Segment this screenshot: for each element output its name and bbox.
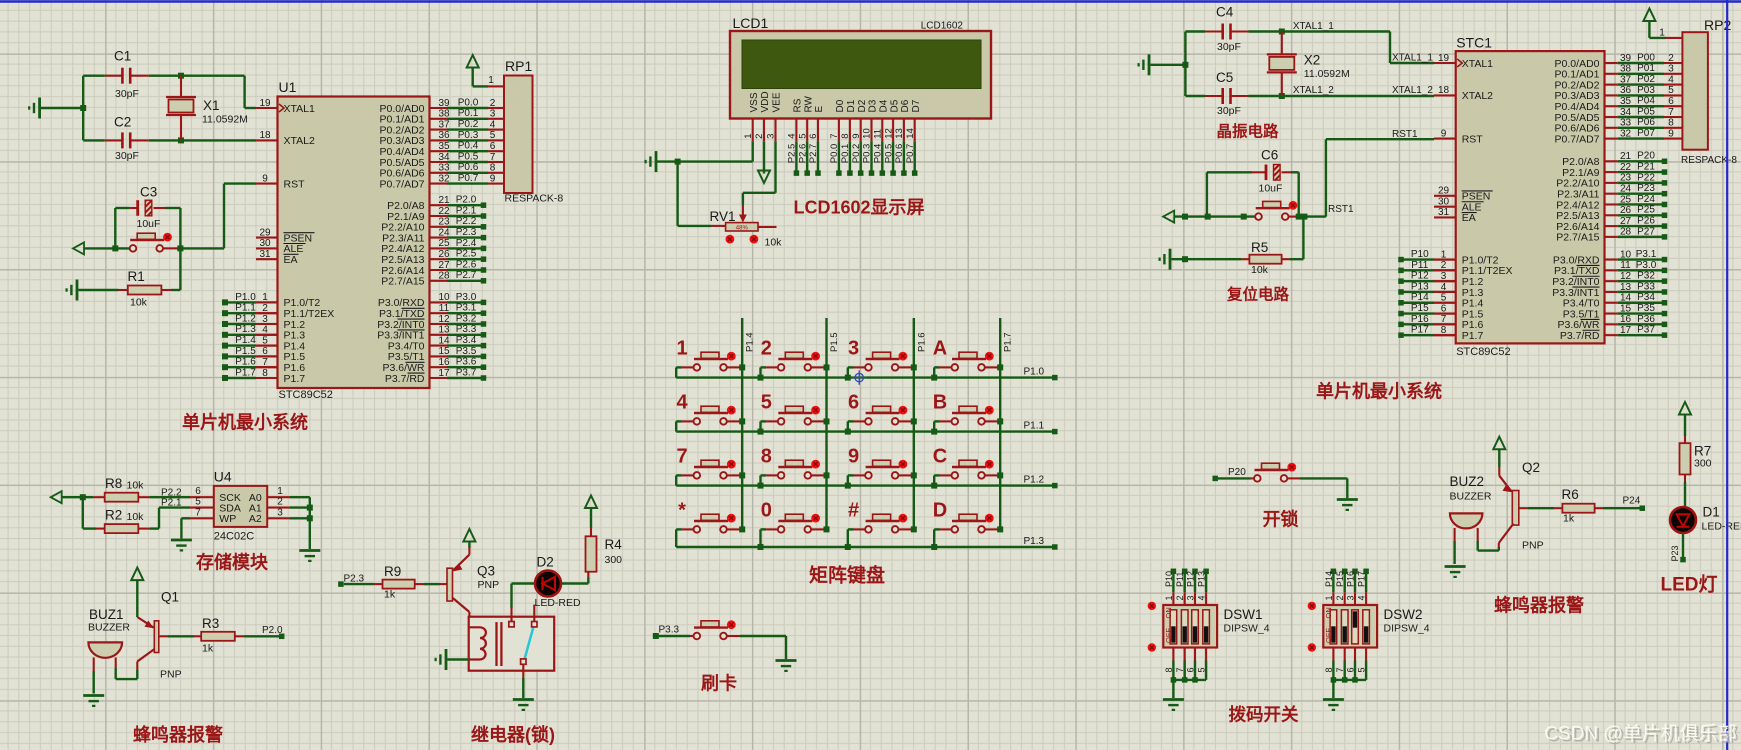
svg-text:继电器(锁): 继电器(锁) <box>471 724 555 745</box>
svg-text:P3.7/RD: P3.7/RD <box>385 373 425 385</box>
svg-text:VDD: VDD <box>760 91 771 112</box>
svg-text:VSS: VSS <box>749 92 760 112</box>
svg-text:P1.7: P1.7 <box>235 367 256 378</box>
svg-text:4: 4 <box>1197 595 1207 600</box>
svg-text:R9: R9 <box>384 564 401 579</box>
svg-text:C2: C2 <box>114 115 131 130</box>
svg-text:P36: P36 <box>1637 314 1655 325</box>
svg-text:D4: D4 <box>879 99 890 112</box>
svg-text:3: 3 <box>1668 64 1674 75</box>
svg-text:4: 4 <box>1668 74 1674 85</box>
svg-text:9: 9 <box>851 134 862 139</box>
svg-text:RST: RST <box>1462 133 1484 145</box>
svg-text:P14: P14 <box>1411 292 1429 303</box>
svg-text:P3.5: P3.5 <box>456 346 477 357</box>
svg-text:P2.7/A15: P2.7/A15 <box>381 276 424 288</box>
svg-text:P3.2: P3.2 <box>456 313 477 324</box>
svg-text:RV1: RV1 <box>710 209 736 224</box>
svg-text:24C02C: 24C02C <box>214 531 254 543</box>
svg-text:P1.4: P1.4 <box>745 332 756 352</box>
svg-text:R4: R4 <box>605 537 623 552</box>
svg-text:P05: P05 <box>1637 106 1655 117</box>
svg-text:2: 2 <box>1175 595 1185 600</box>
svg-text:PNP: PNP <box>160 669 182 681</box>
svg-text:C4: C4 <box>1216 5 1234 20</box>
svg-text:P0.7/AD7: P0.7/AD7 <box>380 178 425 190</box>
svg-text:3: 3 <box>1345 595 1355 600</box>
svg-text:11: 11 <box>873 129 884 139</box>
svg-text:P1.2: P1.2 <box>235 313 256 324</box>
svg-text:30pF: 30pF <box>115 88 139 100</box>
svg-text:P00: P00 <box>1637 52 1655 63</box>
svg-text:300: 300 <box>605 554 623 566</box>
svg-text:1: 1 <box>676 337 687 359</box>
svg-text:P1.7: P1.7 <box>284 373 306 385</box>
svg-text:7: 7 <box>829 134 840 139</box>
svg-text:P0.7: P0.7 <box>458 173 479 184</box>
svg-text:B: B <box>933 391 947 413</box>
svg-text:P3.7: P3.7 <box>456 367 477 378</box>
svg-text:P2.6: P2.6 <box>797 144 808 164</box>
svg-text:P1.0: P1.0 <box>235 292 256 303</box>
svg-text:RP1: RP1 <box>505 58 532 74</box>
svg-text:P13: P13 <box>1411 281 1429 292</box>
svg-text:单片机最小系统: 单片机最小系统 <box>1316 381 1442 402</box>
svg-text:P07: P07 <box>1637 128 1655 139</box>
svg-text:P0.2: P0.2 <box>851 144 862 164</box>
svg-text:30pF: 30pF <box>1217 105 1241 117</box>
svg-text:19: 19 <box>1438 53 1450 64</box>
svg-text:D0: D0 <box>835 99 846 112</box>
svg-text:P2.6: P2.6 <box>456 259 477 270</box>
svg-text:11.0592M: 11.0592M <box>202 114 248 126</box>
svg-text:P01: P01 <box>1637 63 1655 74</box>
svg-text:R7: R7 <box>1694 444 1711 459</box>
svg-text:48%: 48% <box>736 226 749 232</box>
svg-text:A: A <box>933 337 947 359</box>
svg-text:VEE: VEE <box>772 92 783 112</box>
svg-text:P12: P12 <box>1411 271 1429 282</box>
svg-text:P0.0: P0.0 <box>829 144 840 164</box>
svg-text:6: 6 <box>808 134 819 139</box>
svg-text:BUZZER: BUZZER <box>88 622 130 634</box>
svg-text:P27: P27 <box>1637 226 1655 237</box>
svg-text:1: 1 <box>277 486 283 497</box>
svg-text:P24: P24 <box>1623 496 1641 507</box>
svg-text:5: 5 <box>797 134 808 139</box>
svg-text:BUZ2: BUZ2 <box>1450 474 1485 489</box>
svg-text:P3.0: P3.0 <box>1636 260 1657 271</box>
svg-text:P32: P32 <box>1637 271 1655 282</box>
svg-text:P2.1: P2.1 <box>456 205 477 216</box>
svg-text:P11: P11 <box>1411 260 1428 271</box>
svg-text:P2.4: P2.4 <box>456 238 477 249</box>
svg-text:P0.3: P0.3 <box>458 130 479 141</box>
svg-text:C1: C1 <box>114 49 131 64</box>
svg-text:BUZ1: BUZ1 <box>89 607 124 622</box>
svg-text:13: 13 <box>894 128 905 139</box>
svg-text:P3.1: P3.1 <box>456 303 477 314</box>
svg-text:10k: 10k <box>130 297 148 309</box>
svg-text:RW: RW <box>803 95 814 112</box>
svg-text:P1.6: P1.6 <box>235 357 256 368</box>
svg-text:10uF: 10uF <box>137 218 161 230</box>
svg-text:Q1: Q1 <box>161 590 179 605</box>
svg-text:RS: RS <box>793 98 804 112</box>
svg-text:4: 4 <box>787 134 798 139</box>
svg-text:5: 5 <box>761 391 772 413</box>
svg-text:P1.4: P1.4 <box>235 335 256 346</box>
svg-text:E: E <box>814 106 825 113</box>
svg-text:D1: D1 <box>846 99 857 112</box>
svg-text:Q2: Q2 <box>1522 460 1540 475</box>
svg-text:LED-RED: LED-RED <box>1702 521 1741 533</box>
svg-text:DSW2: DSW2 <box>1384 607 1423 622</box>
svg-text:3: 3 <box>490 109 496 120</box>
svg-text:8: 8 <box>490 163 496 174</box>
svg-text:9: 9 <box>848 445 859 467</box>
svg-text:5: 5 <box>490 130 496 141</box>
svg-text:CSDN @单片机俱乐部: CSDN @单片机俱乐部 <box>1544 723 1736 745</box>
svg-text:P1.2: P1.2 <box>1024 475 1045 486</box>
svg-text:OFF: OFF <box>1324 628 1333 643</box>
svg-text:XTAL1: XTAL1 <box>284 103 315 115</box>
svg-text:P2.7: P2.7 <box>808 144 819 164</box>
svg-text:XTAL2: XTAL2 <box>284 135 315 147</box>
svg-text:P22: P22 <box>1637 172 1655 183</box>
svg-text:10k: 10k <box>765 237 783 249</box>
svg-text:RST1: RST1 <box>1392 129 1418 140</box>
svg-text:P20: P20 <box>1228 467 1246 478</box>
svg-text:RST1: RST1 <box>1328 204 1354 215</box>
svg-text:DSW1: DSW1 <box>1224 607 1263 622</box>
svg-text:Q3: Q3 <box>477 564 495 579</box>
svg-text:P2.5: P2.5 <box>456 249 477 260</box>
svg-text:14: 14 <box>905 128 916 139</box>
svg-text:P0.7: P0.7 <box>905 144 916 164</box>
svg-text:300: 300 <box>1694 458 1712 470</box>
svg-text:RST: RST <box>284 178 306 190</box>
svg-text:复位电路: 复位电路 <box>1226 285 1290 304</box>
svg-text:D3: D3 <box>868 99 879 112</box>
svg-text:P1.0: P1.0 <box>1024 367 1045 378</box>
svg-text:开锁: 开锁 <box>1263 509 1299 530</box>
svg-text:R2: R2 <box>105 508 122 523</box>
svg-text:单片机最小系统: 单片机最小系统 <box>182 412 308 433</box>
svg-text:OFF: OFF <box>1164 628 1173 643</box>
svg-text:蜂鸣器报警: 蜂鸣器报警 <box>1494 595 1584 616</box>
svg-text:P2.3: P2.3 <box>456 227 477 238</box>
svg-text:9: 9 <box>1441 128 1447 139</box>
svg-text:C: C <box>933 445 947 467</box>
svg-text:30pF: 30pF <box>1217 41 1241 53</box>
svg-text:P0.5: P0.5 <box>883 144 894 164</box>
svg-text:蜂鸣器报警: 蜂鸣器报警 <box>133 724 223 745</box>
svg-text:XTAL1_2: XTAL1_2 <box>1392 85 1433 96</box>
svg-text:STC89C52: STC89C52 <box>1456 346 1510 358</box>
svg-text:4: 4 <box>1357 595 1367 600</box>
svg-text:P2.2: P2.2 <box>456 216 477 227</box>
svg-text:6: 6 <box>195 486 201 497</box>
svg-text:30: 30 <box>1438 196 1450 207</box>
svg-text:P2.7/A15: P2.7/A15 <box>1556 232 1599 244</box>
svg-text:10k: 10k <box>127 511 145 523</box>
svg-text:6: 6 <box>1668 96 1674 107</box>
svg-text:P23: P23 <box>1637 183 1655 194</box>
svg-text:P1.3: P1.3 <box>1024 536 1045 547</box>
svg-text:P10: P10 <box>1164 571 1174 587</box>
svg-text:D2: D2 <box>537 555 554 570</box>
svg-text:X1: X1 <box>203 98 220 113</box>
svg-text:9: 9 <box>1668 128 1674 139</box>
svg-text:STC1: STC1 <box>1456 35 1492 51</box>
svg-text:P34: P34 <box>1637 292 1655 303</box>
svg-text:LCD1: LCD1 <box>733 15 769 31</box>
svg-text:U4: U4 <box>214 469 232 485</box>
svg-text:ON: ON <box>1324 607 1333 618</box>
svg-text:18: 18 <box>1438 85 1450 96</box>
svg-text:6: 6 <box>490 141 496 152</box>
svg-text:P3.3: P3.3 <box>456 324 477 335</box>
svg-text:LED灯: LED灯 <box>1660 574 1717 596</box>
svg-text:1k: 1k <box>384 589 396 601</box>
svg-text:D7: D7 <box>911 99 922 112</box>
svg-text:P24: P24 <box>1637 194 1655 205</box>
svg-text:10k: 10k <box>127 480 145 492</box>
svg-text:P0.6: P0.6 <box>894 144 905 164</box>
svg-text:RESPACK-8: RESPACK-8 <box>1681 155 1737 166</box>
svg-text:P26: P26 <box>1637 215 1655 226</box>
svg-text:P2.3: P2.3 <box>344 574 365 585</box>
svg-text:P16: P16 <box>1345 571 1355 587</box>
svg-text:晶振电路: 晶振电路 <box>1216 122 1279 141</box>
svg-text:ON: ON <box>1164 607 1173 618</box>
svg-text:31: 31 <box>259 249 271 260</box>
svg-text:A2: A2 <box>249 513 262 525</box>
svg-text:STC89C52: STC89C52 <box>279 389 333 401</box>
svg-text:2: 2 <box>1668 53 1674 64</box>
svg-text:4: 4 <box>676 391 688 413</box>
svg-text:C3: C3 <box>140 185 157 200</box>
svg-text:XTAL1_1: XTAL1_1 <box>1392 53 1433 64</box>
svg-text:R1: R1 <box>128 269 145 284</box>
svg-text:2: 2 <box>490 98 496 109</box>
svg-text:刷卡: 刷卡 <box>701 673 737 694</box>
svg-text:2: 2 <box>761 337 772 359</box>
svg-text:PNP: PNP <box>478 579 500 591</box>
svg-text:DIPSW_4: DIPSW_4 <box>1384 623 1430 635</box>
svg-text:9: 9 <box>490 173 496 184</box>
svg-text:D6: D6 <box>900 99 911 112</box>
svg-text:1: 1 <box>488 75 494 86</box>
svg-text:U1: U1 <box>279 79 297 95</box>
svg-text:1k: 1k <box>1563 513 1575 525</box>
svg-text:P1.5: P1.5 <box>235 346 256 357</box>
svg-text:7: 7 <box>676 445 687 467</box>
svg-text:存储模块: 存储模块 <box>196 552 269 573</box>
svg-text:P25: P25 <box>1637 205 1655 216</box>
svg-text:P1.7: P1.7 <box>1003 332 1014 352</box>
svg-text:P20: P20 <box>1637 151 1655 162</box>
svg-text:7: 7 <box>195 507 201 518</box>
svg-text:P0.2: P0.2 <box>458 119 479 130</box>
svg-text:P2.0: P2.0 <box>262 625 283 636</box>
svg-text:3: 3 <box>848 337 859 359</box>
svg-text:3: 3 <box>277 507 283 518</box>
svg-text:7: 7 <box>1668 107 1674 118</box>
svg-text:P3.7/RD: P3.7/RD <box>1560 330 1600 342</box>
svg-text:8: 8 <box>1668 118 1674 129</box>
svg-text:31: 31 <box>1438 207 1450 218</box>
svg-text:11.0592M: 11.0592M <box>1304 68 1350 80</box>
svg-text:P12: P12 <box>1185 571 1195 587</box>
svg-text:P0.1: P0.1 <box>458 108 479 119</box>
svg-text:P33: P33 <box>1637 281 1655 292</box>
svg-text:P2.0: P2.0 <box>456 195 477 206</box>
svg-text:P02: P02 <box>1637 74 1655 85</box>
svg-text:2: 2 <box>277 497 283 508</box>
svg-text:P3.4: P3.4 <box>456 335 477 346</box>
svg-text:P0.0: P0.0 <box>458 97 479 108</box>
svg-text:P15: P15 <box>1411 303 1429 314</box>
svg-text:P14: P14 <box>1324 571 1334 587</box>
svg-text:3: 3 <box>766 134 777 139</box>
svg-text:P13: P13 <box>1197 571 1207 587</box>
svg-text:XTAL1: XTAL1 <box>1462 58 1493 70</box>
svg-text:拨码开关: 拨码开关 <box>1229 705 1299 725</box>
svg-text:4: 4 <box>490 119 496 130</box>
svg-text:P0.7/AD7: P0.7/AD7 <box>1555 133 1600 145</box>
svg-text:0: 0 <box>761 499 772 521</box>
svg-text:P3.3: P3.3 <box>659 625 680 636</box>
svg-text:5: 5 <box>195 497 201 508</box>
svg-text:8: 8 <box>761 445 772 467</box>
svg-text:C5: C5 <box>1216 70 1233 85</box>
svg-text:P37: P37 <box>1637 325 1655 336</box>
svg-text:P06: P06 <box>1637 117 1655 128</box>
svg-text:P11: P11 <box>1175 572 1185 587</box>
svg-text:29: 29 <box>259 227 271 238</box>
svg-text:D2: D2 <box>857 99 868 112</box>
svg-text:P2.7: P2.7 <box>456 270 477 281</box>
svg-text:C6: C6 <box>1261 148 1278 163</box>
svg-text:P15: P15 <box>1335 571 1345 587</box>
svg-text:P3.6: P3.6 <box>456 357 477 368</box>
svg-text:2: 2 <box>754 134 765 139</box>
svg-text:R6: R6 <box>1562 487 1579 502</box>
svg-text:R3: R3 <box>202 616 219 631</box>
svg-text:10uF: 10uF <box>1259 183 1283 195</box>
svg-text:XTAL2: XTAL2 <box>1462 90 1493 102</box>
svg-text:LCD1602显示屏: LCD1602显示屏 <box>793 198 924 218</box>
svg-text:P35: P35 <box>1637 303 1655 314</box>
svg-text:P0.6: P0.6 <box>458 162 479 173</box>
svg-text:1k: 1k <box>202 643 214 655</box>
svg-text:P23: P23 <box>1670 545 1680 561</box>
svg-text:19: 19 <box>259 98 271 109</box>
svg-text:#: # <box>848 499 859 521</box>
svg-text:P0.4: P0.4 <box>458 141 479 152</box>
svg-text:P10: P10 <box>1411 249 1429 260</box>
svg-text:R5: R5 <box>1251 240 1268 255</box>
svg-text:8: 8 <box>840 134 851 139</box>
svg-text:1: 1 <box>1164 595 1174 600</box>
svg-text:P16: P16 <box>1411 314 1429 325</box>
svg-text:P1.5: P1.5 <box>829 332 840 352</box>
svg-text:EA: EA <box>1462 212 1476 224</box>
svg-text:P03: P03 <box>1637 85 1655 96</box>
svg-text:P3.1: P3.1 <box>1636 249 1657 260</box>
svg-text:P1.6: P1.6 <box>916 332 927 352</box>
svg-text:P1.3: P1.3 <box>235 324 256 335</box>
svg-text:30pF: 30pF <box>115 150 139 162</box>
svg-text:P1.1: P1.1 <box>235 303 256 314</box>
svg-text:D1: D1 <box>1703 505 1720 520</box>
svg-text:3: 3 <box>1185 595 1195 600</box>
svg-text:DIPSW_4: DIPSW_4 <box>1224 623 1270 635</box>
svg-text:D5: D5 <box>889 99 900 112</box>
svg-text:12: 12 <box>883 128 894 139</box>
svg-text:RESPACK-8: RESPACK-8 <box>505 193 564 205</box>
svg-text:R8: R8 <box>105 476 122 491</box>
svg-text:P17: P17 <box>1411 325 1429 336</box>
svg-text:P2.5: P2.5 <box>787 144 798 164</box>
svg-text:XTAL1_2: XTAL1_2 <box>1293 85 1334 96</box>
svg-text:7: 7 <box>490 152 496 163</box>
svg-text:5: 5 <box>1668 85 1674 96</box>
svg-text:9: 9 <box>262 173 268 184</box>
svg-text:P1.1: P1.1 <box>1024 421 1045 432</box>
svg-text:6: 6 <box>848 391 859 413</box>
svg-text:BUZZER: BUZZER <box>1450 491 1492 503</box>
svg-text:P0.1: P0.1 <box>840 144 851 164</box>
svg-text:P0.4: P0.4 <box>873 144 884 164</box>
svg-text:18: 18 <box>259 130 271 141</box>
svg-text:EA: EA <box>284 254 298 266</box>
svg-text:LCD1602: LCD1602 <box>921 21 964 32</box>
svg-text:P3.0: P3.0 <box>456 292 477 303</box>
svg-text:1: 1 <box>1324 595 1334 600</box>
svg-text:P17: P17 <box>1357 571 1367 587</box>
svg-text:矩阵键盘: 矩阵键盘 <box>809 564 885 587</box>
svg-text:LED-RED: LED-RED <box>535 597 582 609</box>
svg-text:D: D <box>933 499 947 521</box>
svg-text:WP: WP <box>219 513 236 525</box>
svg-text:PNP: PNP <box>1522 540 1544 552</box>
svg-text:XTAL1_1: XTAL1_1 <box>1293 21 1334 32</box>
svg-text:1: 1 <box>743 134 754 139</box>
svg-text:P1.7: P1.7 <box>1462 330 1484 342</box>
svg-text:2: 2 <box>1335 595 1345 600</box>
svg-text:P04: P04 <box>1637 96 1655 107</box>
svg-text:P0.5: P0.5 <box>458 151 479 162</box>
svg-text:29: 29 <box>1438 186 1450 197</box>
svg-text:30: 30 <box>259 238 271 249</box>
svg-text:X2: X2 <box>1304 53 1321 68</box>
svg-text:10k: 10k <box>1251 264 1269 276</box>
svg-text:P21: P21 <box>1637 161 1655 172</box>
svg-text:1: 1 <box>1659 28 1665 39</box>
svg-text:P0.3: P0.3 <box>862 144 873 164</box>
svg-text:10: 10 <box>862 128 873 139</box>
svg-text:*: * <box>678 499 686 521</box>
